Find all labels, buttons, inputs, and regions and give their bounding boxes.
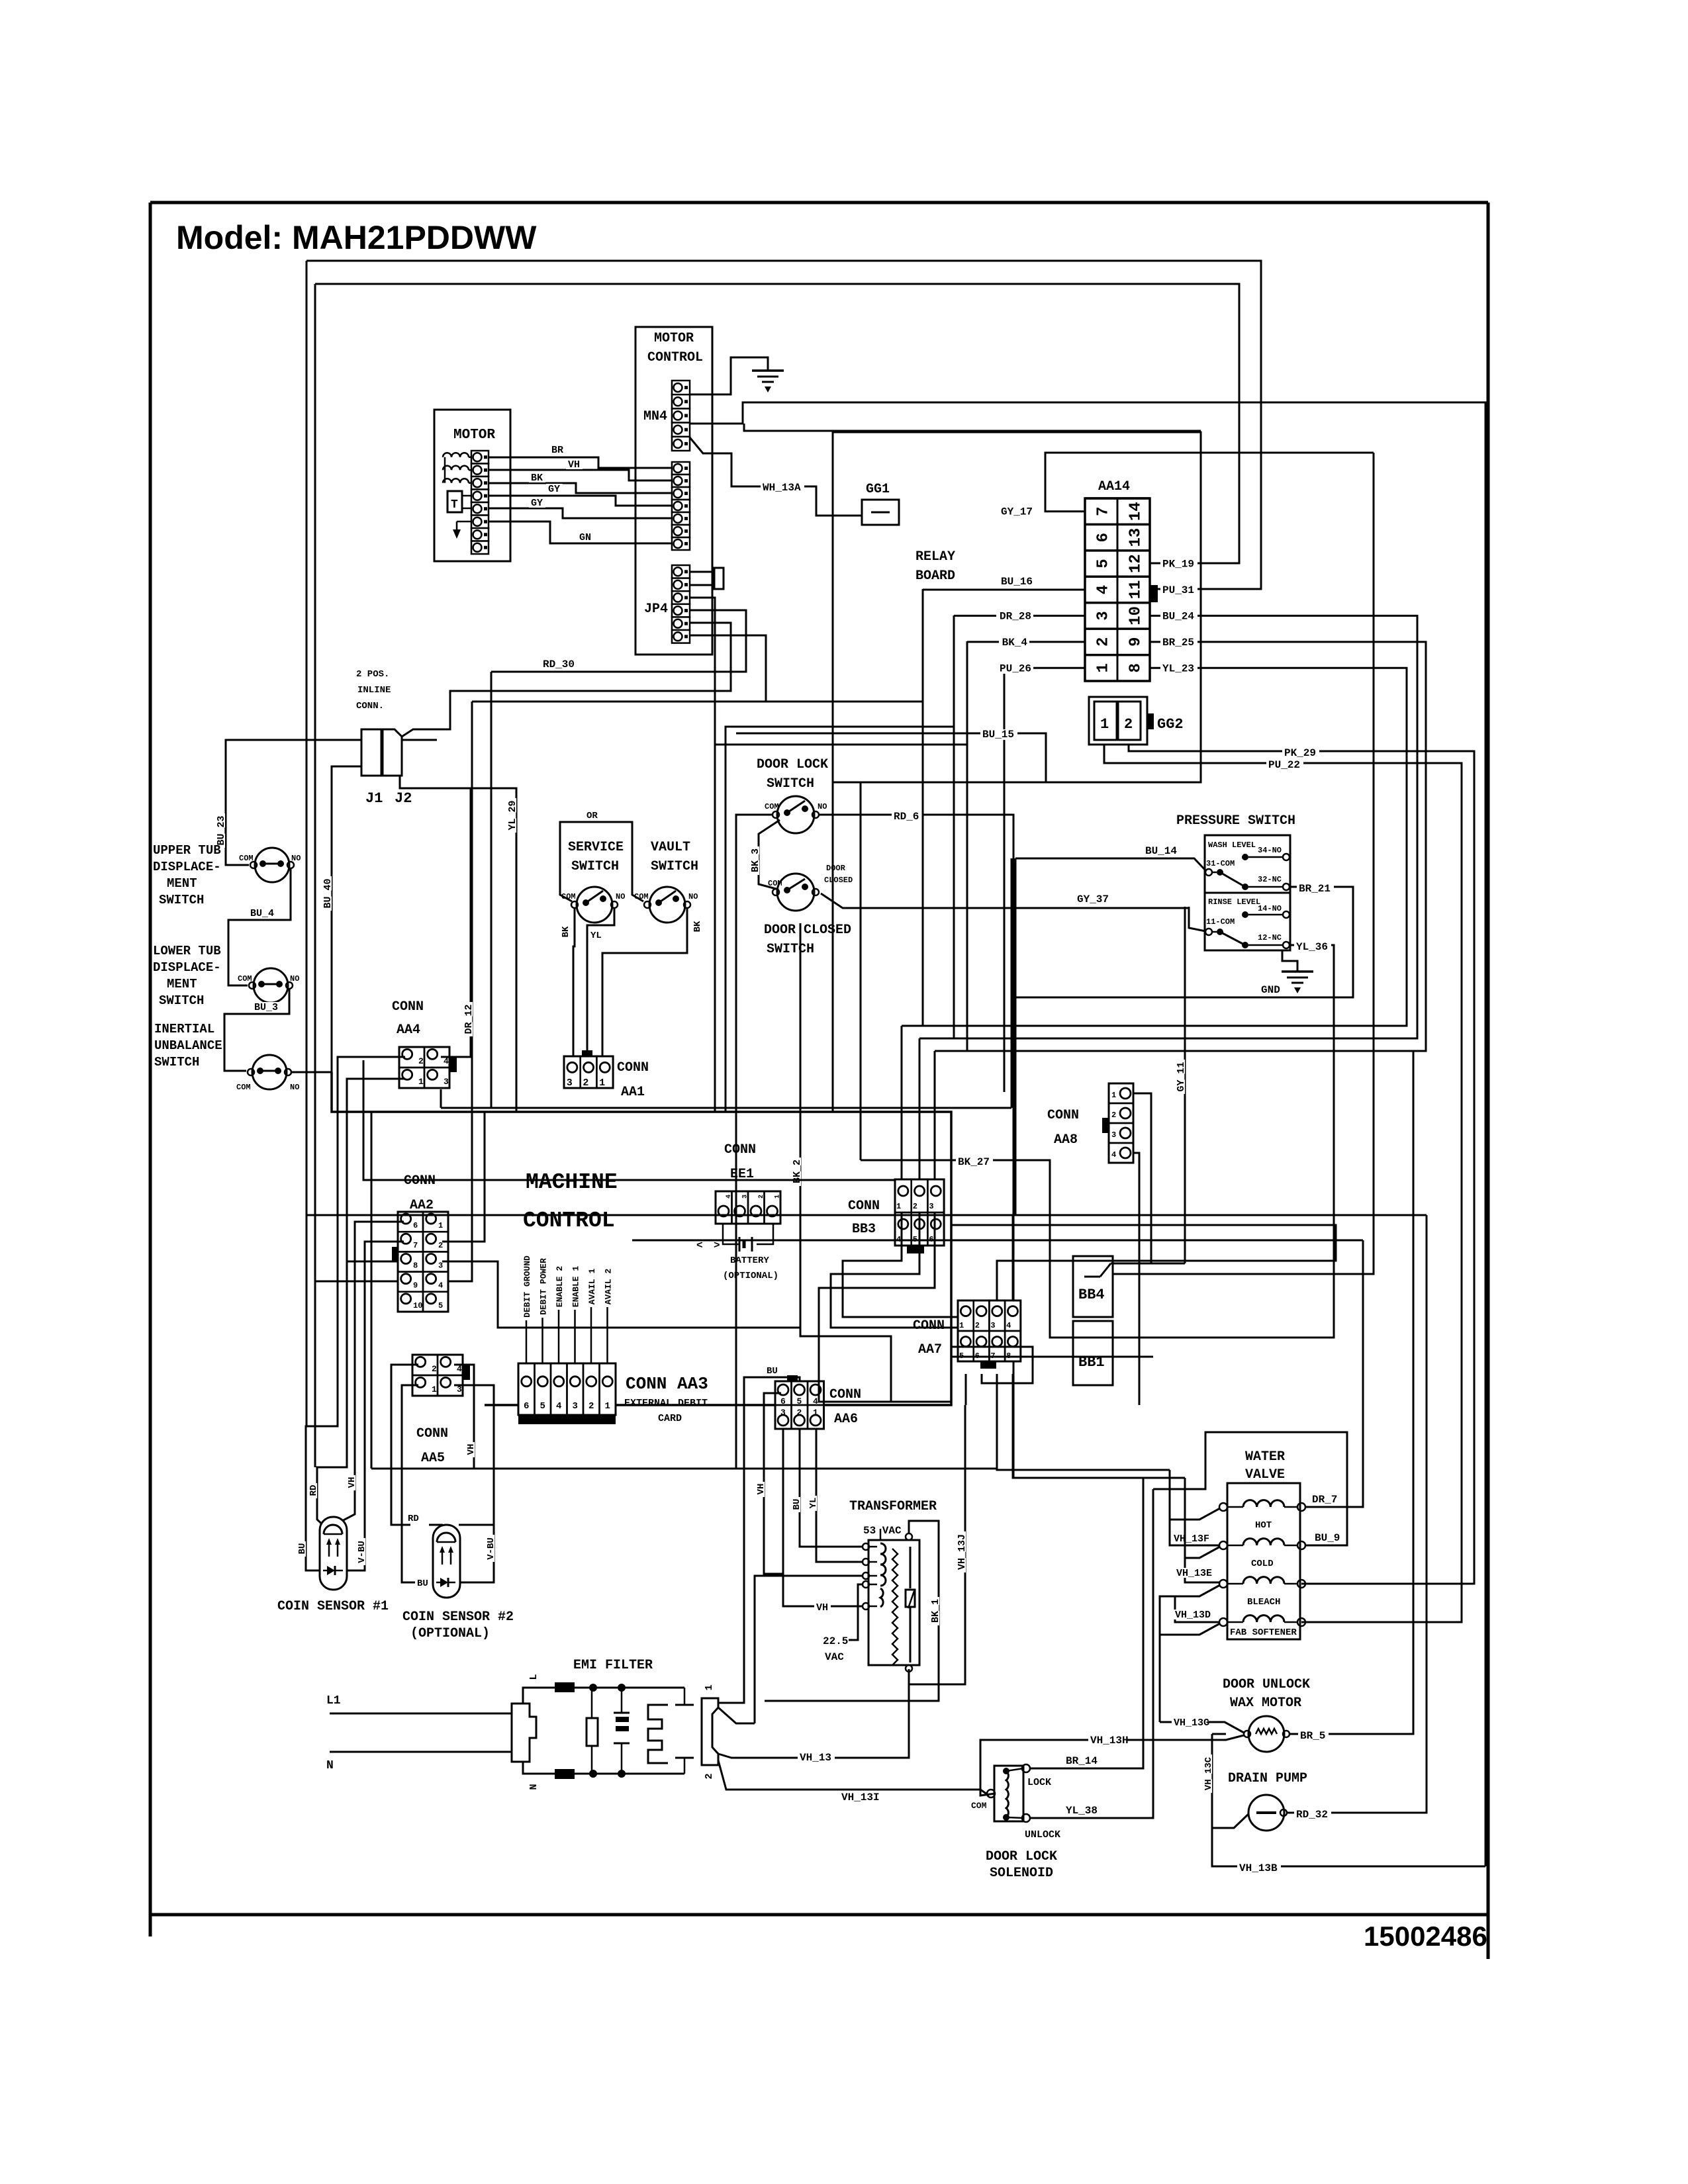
svg-text:11: 11 <box>1127 580 1145 600</box>
wire BU_14 riser <box>1011 858 1013 1108</box>
wire GY_17 staircase to BB4 <box>1113 453 1374 1274</box>
wire vertical 1080 extension <box>714 745 716 1112</box>
svg-text:CLOSED: CLOSED <box>824 876 853 885</box>
svg-text:BK_1: BK_1 <box>930 1599 941 1623</box>
svg-text:VALVE: VALVE <box>1245 1467 1285 1482</box>
svg-text:BOARD: BOARD <box>915 569 955 584</box>
svg-text:NO: NO <box>291 854 301 863</box>
wire GY_11 <box>1184 907 1186 1263</box>
svg-text:BR_5: BR_5 <box>1300 1730 1325 1742</box>
svg-text:RELAY: RELAY <box>915 549 955 565</box>
wire YL_38 <box>1030 1489 1153 1818</box>
wire VH_13E feed <box>1184 1478 1186 1558</box>
svg-text:COM: COM <box>768 879 782 888</box>
wire BK_1 <box>765 1521 939 1701</box>
svg-text:UNLOCK: UNLOCK <box>1025 1829 1060 1841</box>
svg-text:CONN: CONN <box>829 1387 861 1402</box>
motor ground arrow <box>457 521 471 523</box>
wire L1 <box>330 1713 512 1715</box>
wire DR_7 long row <box>632 1240 1363 1242</box>
svg-text:JP4: JP4 <box>644 602 668 617</box>
svg-text:BK_3: BK_3 <box>750 848 761 872</box>
wire JP4 pin3 to BK_4 <box>690 598 967 745</box>
svg-text:DR_28: DR_28 <box>1000 610 1031 622</box>
wire YL_29 <box>400 788 516 1112</box>
water valve HOT coil <box>1219 1503 1227 1511</box>
svg-text:BR_25: BR_25 <box>1162 637 1194 649</box>
relay board outline <box>833 432 1201 782</box>
wire door lock COM drop <box>736 815 773 1469</box>
wire BB3 pin4 staircase <box>843 1212 966 1317</box>
wire BB3 pin6 staircase <box>819 1212 951 1402</box>
svg-text:7: 7 <box>1095 506 1113 516</box>
svg-text:TRANSFORMER: TRANSFORMER <box>849 1499 937 1514</box>
svg-text:14-NO: 14-NO <box>1258 904 1282 913</box>
svg-text:53 VAC: 53 VAC <box>863 1525 902 1537</box>
wire VH_13G <box>1160 1721 1172 1723</box>
svg-text:4: 4 <box>813 1396 818 1406</box>
svg-text:DISPLACE-: DISPLACE- <box>153 960 221 975</box>
svg-text:FAB SOFTENER: FAB SOFTENER <box>1230 1627 1297 1638</box>
svg-text:8: 8 <box>1127 663 1145 672</box>
svg-text:BU: BU <box>417 1578 428 1589</box>
svg-text:4: 4 <box>1111 1150 1116 1160</box>
wire GY_37 to 11-COM <box>1189 907 1205 931</box>
svg-text:V-BU: V-BU <box>486 1537 496 1560</box>
svg-text:YL: YL <box>808 1498 819 1509</box>
wire VH_13F <box>1170 1508 1220 1545</box>
svg-text:6: 6 <box>1095 533 1113 542</box>
wire J2 to AA4 pin4 <box>400 776 471 1057</box>
svg-text:3: 3 <box>444 1077 449 1087</box>
wire VH_13I <box>718 1760 989 1796</box>
pressure switch ground <box>1282 950 1297 972</box>
coin sensor #1 <box>320 1517 347 1590</box>
svg-text:VH_13I: VH_13I <box>841 1792 880 1803</box>
wire DR_28 long drop <box>953 727 955 1038</box>
svg-text:MENT: MENT <box>167 876 197 891</box>
svg-text:AA6: AA6 <box>834 1412 858 1427</box>
svg-text:EXTERNAL DEBIT: EXTERNAL DEBIT <box>624 1398 708 1409</box>
wire BU_9 <box>1153 1432 1347 1545</box>
coin sensor #1 diode <box>327 1566 335 1575</box>
wire VH_13C <box>1211 1734 1213 1812</box>
wire BB3 pin2 riser <box>919 1038 921 1179</box>
svg-text:CONN AA3: CONN AA3 <box>626 1374 708 1394</box>
svg-text:1: 1 <box>774 1195 782 1199</box>
svg-text:13: 13 <box>1127 528 1145 547</box>
svg-text:3: 3 <box>780 1408 786 1418</box>
wire YL_36 <box>1102 945 1334 1338</box>
transformer primary coils <box>880 1543 886 1586</box>
wire BR_21 <box>1013 887 1353 1092</box>
wire VH_13B return <box>1212 1828 1485 1866</box>
svg-text:5: 5 <box>540 1401 545 1412</box>
wire BU hook from EMI to AA6 pin5 <box>718 1377 800 1703</box>
svg-text:1: 1 <box>1100 716 1109 733</box>
wire JP4 pin4 RD_30 <box>491 610 746 672</box>
connector J1 J2 <box>361 729 381 776</box>
svg-text:AA14: AA14 <box>1098 479 1130 494</box>
svg-text:RD: RD <box>308 1485 319 1496</box>
svg-text:CONN: CONN <box>392 999 424 1015</box>
svg-text:CONN: CONN <box>416 1426 448 1441</box>
svg-text:CONN: CONN <box>913 1318 945 1334</box>
svg-text:RD_32: RD_32 <box>1296 1809 1328 1821</box>
wire AA5 pin4 VH <box>454 1365 474 1469</box>
svg-text:NO: NO <box>688 892 698 901</box>
wire MN4 pin4 long white run to right border <box>690 402 1487 424</box>
svg-text:COM: COM <box>971 1801 987 1811</box>
battery optional <box>723 1224 739 1244</box>
svg-text:MOTOR: MOTOR <box>654 331 694 346</box>
wire VH_13 from emi pin2 <box>718 1669 909 1758</box>
svg-text:<: < <box>696 1240 703 1251</box>
wire PK_19 label <box>1160 559 1197 569</box>
wire loop inner PK_19 <box>315 284 1239 563</box>
emi filter input plug <box>512 1704 536 1762</box>
svg-text:YL_38: YL_38 <box>1066 1805 1098 1817</box>
wire AA2 row2 right <box>442 1112 485 1242</box>
wire VH_13E <box>1185 1547 1220 1582</box>
svg-text:VH: VH <box>466 1444 477 1455</box>
wire BK_4 long drop <box>966 745 968 1051</box>
svg-text:CONTROL: CONTROL <box>647 350 703 365</box>
svg-text:LOWER TUB: LOWER TUB <box>153 944 221 958</box>
svg-text:1: 1 <box>432 1385 437 1394</box>
svg-text:8: 8 <box>413 1261 418 1270</box>
wire VH <box>489 470 672 480</box>
wire AA4 pin1 <box>317 1079 405 1527</box>
svg-text:CONN: CONN <box>1047 1108 1079 1123</box>
svg-text:PU_31: PU_31 <box>1162 584 1194 596</box>
door closed switch S4 <box>777 874 814 911</box>
svg-text:DOOR CLOSED: DOOR CLOSED <box>764 923 851 938</box>
svg-text:3: 3 <box>1111 1130 1116 1140</box>
wire row 2050 <box>951 1356 1153 1358</box>
svg-text:BK_4: BK_4 <box>1002 637 1028 649</box>
svg-text:DISPLACE-: DISPLACE- <box>153 860 221 874</box>
svg-text:4: 4 <box>438 1281 443 1291</box>
motor M1 box <box>434 410 510 561</box>
svg-text:VH_13G: VH_13G <box>1174 1717 1209 1729</box>
svg-text:(OPTIONAL): (OPTIONAL) <box>410 1626 490 1641</box>
svg-text:COM: COM <box>634 892 649 901</box>
svg-text:HOT: HOT <box>1255 1520 1272 1531</box>
wire BU_4 <box>228 868 291 985</box>
motor winding coils <box>443 453 469 457</box>
svg-text:4: 4 <box>1006 1321 1011 1330</box>
svg-text:DEBIT POWER: DEBIT POWER <box>539 1258 549 1315</box>
svg-text:BU_3: BU_3 <box>254 1002 278 1013</box>
wire VH riser jog <box>764 1469 783 1574</box>
wire PU_31 label <box>1160 585 1197 596</box>
svg-text:1: 1 <box>959 1321 964 1330</box>
wire MN4 ground <box>690 357 768 394</box>
svg-text:1: 1 <box>438 1221 443 1230</box>
svg-text:1: 1 <box>599 1077 605 1089</box>
svg-text:GY: GY <box>531 498 543 509</box>
svg-text:BU_23: BU_23 <box>216 815 227 845</box>
svg-text:11-COM: 11-COM <box>1206 917 1235 927</box>
wire AA2 row4 left <box>315 1281 398 1283</box>
svg-text:3: 3 <box>990 1321 995 1330</box>
svg-text:SWITCH: SWITCH <box>767 942 814 957</box>
svg-text:UNBALANCE: UNBALANCE <box>154 1038 222 1053</box>
svg-text:SWITCH: SWITCH <box>159 893 204 907</box>
svg-text:BR_21: BR_21 <box>1299 883 1331 895</box>
svg-text:12: 12 <box>1127 554 1145 573</box>
svg-text:3: 3 <box>1095 611 1113 620</box>
svg-text:2: 2 <box>1111 1111 1116 1120</box>
wire AA5 pin3 V-BU <box>454 1385 494 1582</box>
svg-text:VH_13C: VH_13C <box>1203 1756 1214 1790</box>
svg-text:BU_24: BU_24 <box>1162 610 1194 622</box>
wire transformer pin3 feed <box>755 1576 863 1723</box>
wire JP4 pin5 to J2 bevel <box>413 623 731 729</box>
svg-text:PK_29: PK_29 <box>1284 747 1316 759</box>
svg-text:2: 2 <box>1095 637 1113 647</box>
svg-text:CONN.: CONN. <box>356 701 384 711</box>
wire RD_6 riser to RD row <box>1013 815 1015 1108</box>
svg-text:7: 7 <box>413 1241 418 1250</box>
svg-text:VH_13D: VH_13D <box>1175 1610 1211 1621</box>
wire bus row B <box>485 1111 861 1113</box>
wire BR_25 <box>935 642 1426 1051</box>
svg-text:COLD: COLD <box>1251 1559 1274 1569</box>
connector JP4 pads <box>672 565 690 578</box>
svg-text:GY_37: GY_37 <box>1077 893 1109 905</box>
wire GY_37 <box>821 893 1189 908</box>
svg-text:J2: J2 <box>395 790 412 807</box>
svg-text:34-NO: 34-NO <box>1258 846 1282 855</box>
wire VH_13D feed chain <box>1160 1596 1175 1722</box>
wire loop outer PU_31 <box>306 261 1261 589</box>
svg-text:BU_14: BU_14 <box>1145 845 1177 857</box>
wire vertical 561 <box>371 1112 373 1469</box>
svg-text:N: N <box>326 1759 334 1772</box>
emi filter choke comb <box>648 1705 668 1763</box>
svg-text:L: L <box>528 1674 539 1680</box>
svg-text:BK: BK <box>692 921 703 932</box>
wire YL service NO to AA1 pin2 <box>587 908 614 1057</box>
wire VH_13H <box>980 1740 1089 1796</box>
wire fab right <box>1305 1621 1462 1623</box>
svg-text:INLINE: INLINE <box>357 685 391 696</box>
svg-text:VH: VH <box>816 1602 828 1614</box>
svg-text:PK_19: PK_19 <box>1162 559 1194 570</box>
svg-text:AA8: AA8 <box>1054 1132 1078 1148</box>
relay BB4 <box>1073 1256 1113 1317</box>
wire AA7 pin3 riser <box>951 1225 1336 1300</box>
svg-text:2 POS.: 2 POS. <box>356 669 389 680</box>
wire GY_17 <box>1045 453 1374 512</box>
svg-text:PRESSURE SWITCH: PRESSURE SWITCH <box>1176 813 1295 829</box>
machine control bus outline <box>332 1072 951 1405</box>
wire WH_13A <box>690 437 761 486</box>
svg-text:BR_14: BR_14 <box>1066 1755 1098 1767</box>
svg-text:COIN SENSOR #2: COIN SENSOR #2 <box>402 1610 514 1625</box>
wire VH_13F feed <box>1169 1470 1171 1520</box>
wire relay left edge extension <box>832 782 834 1112</box>
wire RD_32 <box>1287 1215 1427 1813</box>
svg-text:VH_13J: VH_13J <box>957 1534 968 1570</box>
wire GG2 pin1 PU_22 <box>1104 745 1462 1622</box>
svg-text:DOOR: DOOR <box>826 864 846 873</box>
wire from J2 bevel <box>402 729 450 737</box>
wire BB3 pin3 riser <box>934 1051 936 1179</box>
svg-text:YL_29: YL_29 <box>507 800 518 830</box>
connector MN4 pads <box>672 381 690 394</box>
svg-text:5: 5 <box>1095 559 1113 568</box>
svg-text:AA7: AA7 <box>918 1342 942 1357</box>
wire DR_7 <box>1305 1240 1363 1507</box>
svg-text:COM: COM <box>765 802 779 811</box>
emi feedthrough caps <box>684 1688 686 1705</box>
svg-text:SWITCH: SWITCH <box>159 993 204 1008</box>
svg-text:AVAIL 1: AVAIL 1 <box>587 1268 597 1304</box>
svg-text:BK: BK <box>561 926 571 937</box>
svg-text:2: 2 <box>418 1056 424 1066</box>
wire BU_14 <box>1015 858 1205 870</box>
wire AA6 pin3 VH to transformer <box>783 1429 863 1606</box>
wire DR_28 <box>954 615 1085 617</box>
svg-text:1: 1 <box>1111 1091 1116 1100</box>
svg-text:NO: NO <box>616 892 625 901</box>
svg-text:GND: GND <box>1261 984 1280 996</box>
wire AA4 pin2 <box>306 1057 405 1570</box>
svg-text:10: 10 <box>1127 606 1145 625</box>
wire AA8 pin4 <box>1133 1153 1139 1405</box>
svg-text:14: 14 <box>1127 502 1145 521</box>
motor thermal protector T <box>447 491 462 512</box>
svg-text:3: 3 <box>567 1077 573 1089</box>
svg-text:V-BU: V-BU <box>357 1541 367 1563</box>
svg-text:BK_27: BK_27 <box>958 1156 990 1168</box>
water valve FAB SOFTENER coil <box>1219 1618 1227 1626</box>
svg-text:BU: BU <box>297 1543 308 1555</box>
svg-text:GG2: GG2 <box>1157 716 1184 733</box>
motor control wiring connector pads <box>672 462 690 475</box>
wire BU_40 <box>291 766 361 1072</box>
emi filter output plug <box>702 1698 718 1765</box>
svg-text:CONN: CONN <box>848 1199 880 1214</box>
wire OR <box>560 822 643 901</box>
wire RD_30 riser <box>491 672 492 1108</box>
svg-text:BLEACH: BLEACH <box>1247 1597 1280 1608</box>
wire GG2 pin2 PK_29 <box>1129 745 1474 1584</box>
wire AA6 pin1 YL <box>816 1429 863 1562</box>
svg-text:12-NC: 12-NC <box>1258 933 1282 942</box>
svg-text:6: 6 <box>413 1221 418 1230</box>
svg-text:BB3: BB3 <box>852 1222 876 1237</box>
svg-text:PU_26: PU_26 <box>1000 662 1031 674</box>
wire AA5 pin1 BU <box>402 1385 429 1582</box>
wire BU_16 <box>923 589 1085 591</box>
wire VH_13D <box>1175 1585 1220 1622</box>
wire DR_12 <box>442 702 472 1281</box>
svg-text:RINSE LEVEL: RINSE LEVEL <box>1208 897 1260 907</box>
wire YL_23 <box>902 668 1407 1026</box>
transformer fuse bar <box>910 1547 912 1588</box>
svg-text:BU_9: BU_9 <box>1315 1532 1340 1544</box>
wire JP4 pin6 to BU_16 and DR_12 row <box>690 589 923 702</box>
wire GN <box>489 522 672 543</box>
svg-text:WAX MOTOR: WAX MOTOR <box>1230 1696 1301 1711</box>
wire AA7 pin5 drop <box>965 1374 967 1405</box>
svg-text:WATER: WATER <box>1245 1449 1285 1465</box>
svg-text:DR_12: DR_12 <box>463 1004 475 1034</box>
svg-text:GG1: GG1 <box>866 482 890 497</box>
svg-text:T: T <box>451 498 458 512</box>
motor control U1 box <box>635 327 712 655</box>
svg-text:(OPTIONAL): (OPTIONAL) <box>723 1271 778 1281</box>
svg-text:VH: VH <box>347 1477 357 1488</box>
wire bus row C <box>363 1060 895 1180</box>
wire AA7 pin7 drop VH_13F feed <box>997 1374 1170 1470</box>
svg-text:UPPER TUB: UPPER TUB <box>153 843 221 858</box>
svg-text:2: 2 <box>432 1364 437 1374</box>
ground symbol near motor control <box>752 369 784 372</box>
svg-text:OR: OR <box>586 811 598 821</box>
wire AA5 pin2 RD to coin sensor 2 <box>391 1365 418 1525</box>
wire AA6 pin2 BU <box>800 1429 863 1547</box>
svg-text:VAC: VAC <box>825 1651 844 1663</box>
svg-text:1: 1 <box>418 1077 424 1087</box>
debit card signal stubs <box>526 1291 528 1363</box>
wire drain pump feed <box>1212 1812 1248 1828</box>
wire VH_13J <box>909 1405 965 1684</box>
svg-text:SERVICE: SERVICE <box>568 840 624 855</box>
svg-text:SWITCH: SWITCH <box>651 859 698 874</box>
svg-text:1: 1 <box>813 1408 818 1418</box>
svg-text:DRAIN PUMP: DRAIN PUMP <box>1228 1771 1307 1786</box>
svg-text:SWITCH: SWITCH <box>571 859 619 874</box>
svg-text:BR: BR <box>551 445 563 456</box>
svg-text:VH_13: VH_13 <box>800 1752 831 1764</box>
wire bus row D RD_32 long <box>306 1214 1427 1216</box>
svg-text:GN: GN <box>579 532 591 543</box>
svg-text:SWITCH: SWITCH <box>154 1055 199 1069</box>
motor connector pads <box>471 451 489 464</box>
svg-text:VH: VH <box>756 1484 767 1495</box>
wire BK_3 <box>759 820 780 889</box>
svg-text:YL_36: YL_36 <box>1296 941 1328 953</box>
svg-text:WASH LEVEL: WASH LEVEL <box>1208 841 1256 850</box>
wire BU_15 <box>736 733 1046 782</box>
svg-text:DOOR LOCK: DOOR LOCK <box>757 757 828 772</box>
svg-text:3: 3 <box>929 1202 933 1211</box>
wire GY <box>489 508 672 518</box>
svg-text:COIN SENSOR #1: COIN SENSOR #1 <box>277 1599 389 1614</box>
transformer secondary winding <box>892 1549 898 1665</box>
wire BU_3 <box>224 989 289 1071</box>
wire V-BU branch to coin sensor 2 top <box>459 1524 494 1526</box>
wire BB3 pin3 top to BK_27 row <box>860 782 862 1160</box>
transformer top pin <box>906 1533 912 1540</box>
svg-text:4: 4 <box>556 1401 561 1412</box>
svg-text:BK: BK <box>531 473 543 484</box>
wire BK_27 <box>861 1160 1102 1338</box>
svg-text:15002486: 15002486 <box>1364 1921 1487 1952</box>
svg-text:DR_7: DR_7 <box>1312 1494 1337 1506</box>
svg-text:22.5: 22.5 <box>823 1635 848 1647</box>
svg-text:31-COM: 31-COM <box>1206 859 1235 868</box>
svg-text:9: 9 <box>1127 637 1145 647</box>
svg-text:MN4: MN4 <box>643 409 667 424</box>
wire J2 pass-through <box>402 739 437 741</box>
wire BR_5 <box>1289 1051 1413 1734</box>
